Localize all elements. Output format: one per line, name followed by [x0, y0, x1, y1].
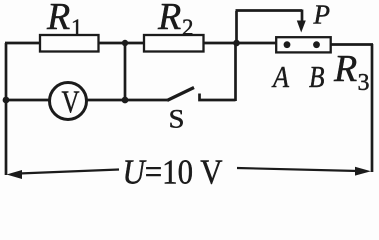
bottom left arrow line — [19, 170, 119, 174]
svg-text:U=10 V: U=10 V — [123, 153, 223, 191]
resistor R1 — [40, 35, 99, 52]
voltmeter row right junction dot — [122, 97, 129, 104]
wire voltmeter row left — [6, 99, 50, 102]
svg-text:P: P — [313, 0, 331, 30]
svg-text:R: R — [157, 0, 181, 38]
wire switch up to node B — [234, 43, 237, 101]
svg-text:1: 1 — [71, 15, 83, 40]
svg-text:B: B — [309, 59, 325, 94]
svg-text:R: R — [333, 48, 357, 90]
wire R3 to right rail — [332, 43, 374, 46]
wire R2 to node B — [204, 42, 276, 45]
rheostat terminal dot A — [284, 41, 291, 48]
node A junction dot — [122, 40, 128, 46]
node B junction dot — [233, 40, 240, 47]
rheostat terminal dot B — [313, 41, 320, 48]
wire voltmeter to node — [87, 99, 167, 102]
wire top left segment — [5, 42, 41, 45]
voltmeter row left junction dot — [3, 97, 10, 104]
slider arrowhead P — [297, 21, 306, 33]
wire right rail — [371, 44, 374, 172]
wire node B up — [235, 11, 238, 43]
wire arrow stem down to P — [301, 10, 304, 23]
bottom left arrowhead — [7, 170, 23, 179]
wire node A down to voltmeter row — [124, 43, 127, 100]
svg-text:2: 2 — [182, 15, 194, 40]
wire left rail — [5, 43, 8, 175]
bottom right arrow line — [237, 168, 358, 171]
svg-text:V: V — [62, 84, 80, 120]
svg-text:3: 3 — [358, 70, 370, 96]
wire to slider arrow — [236, 9, 303, 12]
svg-text:S: S — [169, 105, 185, 134]
rheostat R3 body — [276, 37, 331, 52]
voltmeter V — [50, 83, 87, 120]
resistor R2 — [144, 35, 204, 52]
switch S blade — [167, 88, 194, 101]
wire R1 to node — [98, 42, 144, 45]
switch S right contact — [200, 94, 236, 101]
svg-text:A: A — [271, 59, 290, 94]
bottom right arrowhead — [355, 167, 371, 176]
svg-text:R: R — [46, 0, 70, 38]
